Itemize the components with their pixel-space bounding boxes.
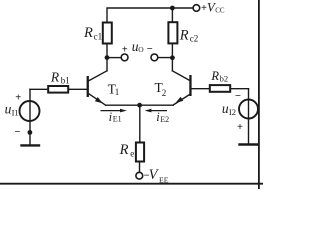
wire Rc2 top: [171, 8, 173, 22]
wire T1 collector diagonal: [89, 71, 107, 81]
wire base2 from T2 to corner: [192, 88, 249, 90]
wire base1 from source to T1: [30, 88, 87, 90]
svg-text:+: +: [15, 92, 21, 103]
svg-text:I2: I2: [229, 107, 236, 117]
svg-text:−: −: [14, 127, 20, 138]
source ui2: [239, 100, 258, 119]
node junction top rail to Rc2: [170, 6, 175, 11]
resistor Rc2: [168, 22, 177, 43]
wire ui2 branch vertical: [248, 89, 250, 144]
wire collector1 to uO+ terminal: [107, 57, 121, 59]
arrow iE1: [101, 109, 127, 113]
svg-text:b1: b1: [61, 75, 70, 85]
node collector2: [170, 55, 175, 60]
node ui1 to ground: [28, 130, 33, 135]
svg-text:−: −: [235, 91, 241, 102]
node collector1: [105, 55, 110, 60]
wire ui1 branch vertical: [29, 89, 31, 144]
wire emitter node to Re: [139, 105, 141, 142]
transistor T2 emitter arrow: [176, 97, 184, 103]
source ui1: [20, 101, 40, 121]
svg-text:c1: c1: [94, 31, 103, 41]
svg-text:2: 2: [162, 88, 167, 98]
svg-text:1: 1: [115, 87, 120, 97]
svg-text:R: R: [119, 142, 129, 158]
wire T1 emitter diagonal: [89, 94, 106, 105]
transistor T1 emitter arrow: [95, 97, 103, 103]
svg-text:I1: I1: [12, 107, 19, 117]
svg-text:+: +: [122, 44, 128, 55]
terminal -VEE: [136, 172, 143, 179]
ground left: [22, 144, 40, 146]
svg-text:R: R: [50, 69, 60, 84]
wire emitter rail: [106, 104, 174, 106]
svg-text:R: R: [83, 25, 93, 41]
svg-text:R: R: [179, 27, 189, 43]
ground right: [240, 143, 258, 145]
svg-text:E2: E2: [160, 115, 169, 124]
svg-text:R: R: [210, 69, 219, 83]
svg-text:u: u: [222, 101, 229, 116]
transistor T1 base bar: [87, 76, 89, 97]
wire T2 collector diagonal: [172, 71, 189, 81]
wire Rc2 bottom to collector2: [171, 43, 173, 70]
svg-text:−: −: [147, 44, 153, 55]
svg-text:CC: CC: [215, 6, 225, 14]
resistor Rc1: [103, 23, 112, 44]
svg-text:c2: c2: [190, 34, 199, 44]
transistor T2 base bar: [189, 75, 191, 96]
terminal uO plus: [121, 54, 128, 61]
wire uO- terminal to collector2: [158, 57, 173, 59]
svg-text:u: u: [5, 101, 12, 116]
svg-text:e: e: [130, 148, 134, 158]
svg-text:O: O: [138, 45, 144, 54]
wire Rc1 bottom to collector1: [106, 44, 108, 71]
svg-text:E1: E1: [113, 115, 122, 124]
svg-text:b2: b2: [220, 74, 229, 84]
border bottom: [0, 183, 263, 185]
node emitter junction: [137, 103, 142, 108]
wire Re to -VEE terminal: [139, 162, 141, 173]
arrow iE2: [145, 109, 167, 113]
terminal uO minus: [151, 54, 158, 61]
resistor Rb1: [48, 86, 68, 93]
svg-text:+: +: [237, 122, 243, 133]
wire top supply rail: [107, 8, 193, 23]
resistor Rb2: [210, 85, 230, 92]
border right: [258, 0, 260, 189]
wire T2 emitter diagonal: [173, 95, 189, 105]
terminal +VCC: [193, 5, 200, 12]
resistor Re: [136, 143, 144, 162]
